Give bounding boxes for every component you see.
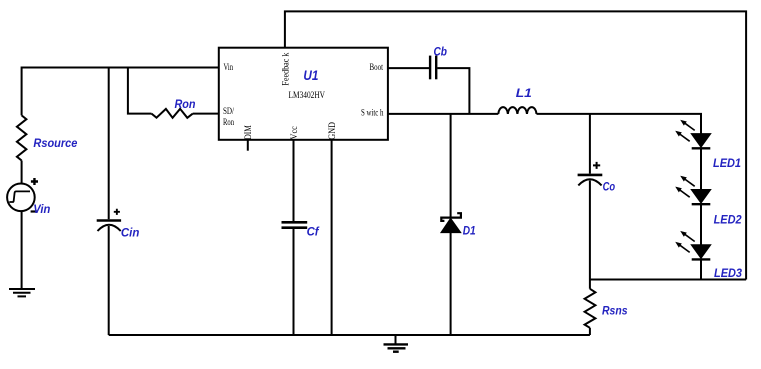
svg-text:Cf: Cf xyxy=(307,227,320,239)
wire Cin branch drop from top rail xyxy=(108,68,110,220)
wire bottom-right net (Co/LED3/feedback junction) xyxy=(590,279,746,281)
svg-text:Rsource: Rsource xyxy=(33,136,77,150)
resistor Rsource xyxy=(17,115,27,160)
wire switch node to D1 cathode xyxy=(450,114,452,218)
wire DIM pin stub xyxy=(247,140,249,151)
node minus sign of Vin source xyxy=(31,210,38,212)
wire LED3 to bottom-right net xyxy=(700,258,702,279)
ground (center, under bottom rail) xyxy=(384,344,409,351)
svg-text:SD/: SD/ xyxy=(223,106,234,116)
svg-text:Cin: Cin xyxy=(121,226,139,240)
wire L1 output node to Co xyxy=(589,114,591,174)
wire Ron branch drop and lead xyxy=(128,68,152,114)
wire Rsns bottom lead xyxy=(589,328,591,335)
svg-text:LED1: LED1 xyxy=(713,156,741,170)
wire Cin to bottom rail xyxy=(108,226,110,335)
wire LED2 to LED3 xyxy=(700,203,702,245)
ground (left, under Vin source) xyxy=(9,289,35,296)
wire Co to bottom-right net xyxy=(589,181,591,280)
wire LED1 to LED2 xyxy=(700,147,702,189)
wire Vcc pin drop to Cf xyxy=(293,140,295,221)
wire D1 anode to bottom rail xyxy=(450,233,452,335)
wire GND pin drop to bottom rail xyxy=(331,140,333,335)
wire Feedback net: up, across top, down right side xyxy=(285,11,746,279)
wire center ground stub xyxy=(395,335,397,344)
svg-text:Feedbac k: Feedbac k xyxy=(281,52,291,85)
LED LED3 xyxy=(676,232,711,260)
svg-text:Vcc: Vcc xyxy=(289,126,299,140)
LED LED2 xyxy=(676,177,711,205)
svg-text:D1: D1 xyxy=(463,226,476,238)
svg-text:Vin: Vin xyxy=(33,202,50,216)
svg-text:Boot: Boot xyxy=(370,62,384,72)
svg-text:S witc h: S witc h xyxy=(361,108,384,118)
svg-text:U1: U1 xyxy=(303,68,318,83)
svg-text:Ron: Ron xyxy=(223,117,234,127)
wire Vin source to ground xyxy=(21,211,23,288)
resistor Rsns xyxy=(585,289,596,328)
wire bottom rail xyxy=(109,334,590,336)
svg-text:LED3: LED3 xyxy=(714,266,742,280)
svg-text:Ron: Ron xyxy=(175,97,196,111)
capacitor Cin (polarized) xyxy=(97,209,121,231)
wire Cf to bottom rail xyxy=(293,229,295,335)
op-amp U1 box outline xyxy=(219,48,388,140)
resistor Ron xyxy=(152,109,193,118)
inductor L1 xyxy=(498,107,536,114)
svg-text:Co: Co xyxy=(603,182,616,194)
wire Rsns top lead xyxy=(589,280,591,289)
wire Vin net: left vertical + top horizontal to U1 Vin pin xyxy=(22,68,219,116)
capacitor Cb xyxy=(430,56,436,80)
svg-text:Rsns: Rsns xyxy=(602,304,628,318)
wire L1 to LED chain top xyxy=(537,114,702,134)
svg-text:L1: L1 xyxy=(516,86,532,100)
wire Switch pin to L1 xyxy=(388,113,498,115)
LED LED1 xyxy=(676,121,711,149)
svg-text:DIM: DIM xyxy=(243,125,253,140)
capacitor Co (polarized) xyxy=(578,162,603,186)
capacitor Cf xyxy=(282,222,308,227)
wire Rsource to Vin source xyxy=(21,161,23,184)
svg-text:GND: GND xyxy=(327,122,337,140)
svg-text:Cb: Cb xyxy=(434,47,448,59)
wire Cb to switch node xyxy=(437,68,469,114)
wire Ron to SD/Ron pin xyxy=(193,113,219,115)
svg-text:LED2: LED2 xyxy=(714,213,742,227)
diode D1 (Schottky) xyxy=(441,213,461,232)
svg-text:Vin: Vin xyxy=(224,62,234,72)
wire Boot pin to Cb xyxy=(388,67,429,69)
source Vin circle with step symbol and plus xyxy=(7,178,38,211)
svg-text:LM3402HV: LM3402HV xyxy=(289,90,326,100)
